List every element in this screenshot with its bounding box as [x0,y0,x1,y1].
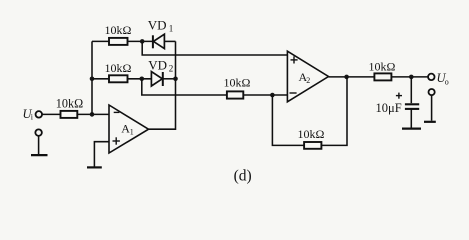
node junction dot capacitor tap [409,75,414,80]
svg-text:10kΩ: 10kΩ [224,75,251,89]
wire: R6 to output terminal Uo [391,76,428,78]
svg-text:1: 1 [169,24,174,34]
node junction dot VD2 cathode x A1 output line [173,77,178,82]
wire: node P down and right to A2 non-inverting input [142,41,287,55]
wire: A2 output to R6 [329,76,375,78]
svg-text:VD: VD [148,57,167,72]
svg-text:1: 1 [130,128,134,137]
resistor R5 10kΩ (A2 feedback) [304,142,321,149]
wire: R4 to A2 inverting input [243,94,287,96]
diode VD1 (cathode left) [153,34,176,48]
ground (output) [424,121,436,123]
node junction dot feedback tap [270,93,275,98]
node junction dot output feedback tap [344,75,349,80]
capacitor C1 bottom lead [410,109,412,128]
node junction dot bus x VD2 branch [90,77,95,82]
output lower terminal [429,89,435,95]
resistor R1 10kΩ (input) [61,111,78,118]
wire: Ui terminal to R1 [42,113,60,115]
svg-text:(d): (d) [234,168,252,185]
svg-text:10kΩ: 10kΩ [105,23,132,37]
wire: bus to R2 (VD1 branch) [92,40,109,42]
wire: bus to R3 (VD2 branch) [92,78,109,80]
capacitor C1 plates [405,103,419,105]
capacitor C1 top lead [410,77,412,103]
wire: lower terminal to ground [38,136,40,154]
wire: R3 to node Q [128,78,152,80]
ground (A1 non-inverting input) [87,166,102,168]
output terminal Uo [428,74,435,81]
svg-text:2: 2 [306,76,310,85]
resistor R3 10kΩ (VD2 branch) [109,75,128,82]
wire: R5 up to A2 output node [321,77,347,145]
node N1 junction dot [90,112,95,117]
wire: R1 to node N1 and A1 inverting input [77,113,109,115]
svg-text:o: o [445,77,449,86]
wire: feedback from inverting node down to R5 [272,95,304,145]
ground (capacitor C1) [402,128,421,130]
input lower terminal [35,129,42,136]
resistor R2 10kΩ (VD1 branch) [109,38,128,45]
wire: left bus from N1 up to VD1 branch [91,41,93,114]
svg-text:10kΩ: 10kΩ [369,59,396,73]
label + polarity of C1 [396,95,402,97]
resistor R4 10kΩ (to A2 inverting input) [227,91,243,98]
wire: node Q down and right to R4 [142,79,227,95]
svg-text:10kΩ: 10kΩ [56,97,83,111]
svg-text:i: i [31,113,34,122]
diode VD2 (anode left, cathode right) [151,72,175,86]
node P junction dot [140,39,145,44]
wire: A1 output vertical line joining VD1 and VD2 to A1 output [149,41,176,129]
svg-text:10kΩ: 10kΩ [105,61,132,75]
svg-text:2: 2 [169,64,174,74]
svg-text:10μF: 10μF [376,101,402,115]
op-amp A2 [287,51,328,102]
wire: R2 to node P [128,40,153,42]
svg-text:10kΩ: 10kΩ [298,127,325,141]
resistor R6 10kΩ (output) [374,73,391,80]
wire: A1 non-inverting input to ground [94,142,109,167]
input terminal Ui [36,111,43,118]
op-amp A1 [109,105,149,153]
node Q junction dot [140,77,145,82]
ground (input) [31,154,48,156]
wire: output lower terminal to ground [431,95,433,121]
svg-text:VD: VD [148,17,167,32]
